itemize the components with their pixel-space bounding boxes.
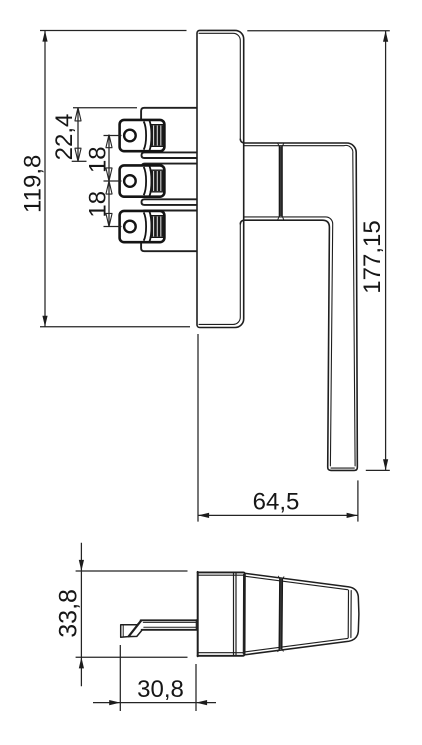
svg-text:64,5: 64,5 [253,489,300,516]
svg-text:18: 18 [85,191,112,218]
svg-text:30,8: 30,8 [137,676,184,703]
svg-text:33,8: 33,8 [55,589,83,638]
svg-text:18: 18 [85,146,112,173]
svg-text:177,15: 177,15 [359,220,386,293]
svg-text:22,4: 22,4 [51,114,78,161]
svg-text:119,8: 119,8 [20,155,47,213]
